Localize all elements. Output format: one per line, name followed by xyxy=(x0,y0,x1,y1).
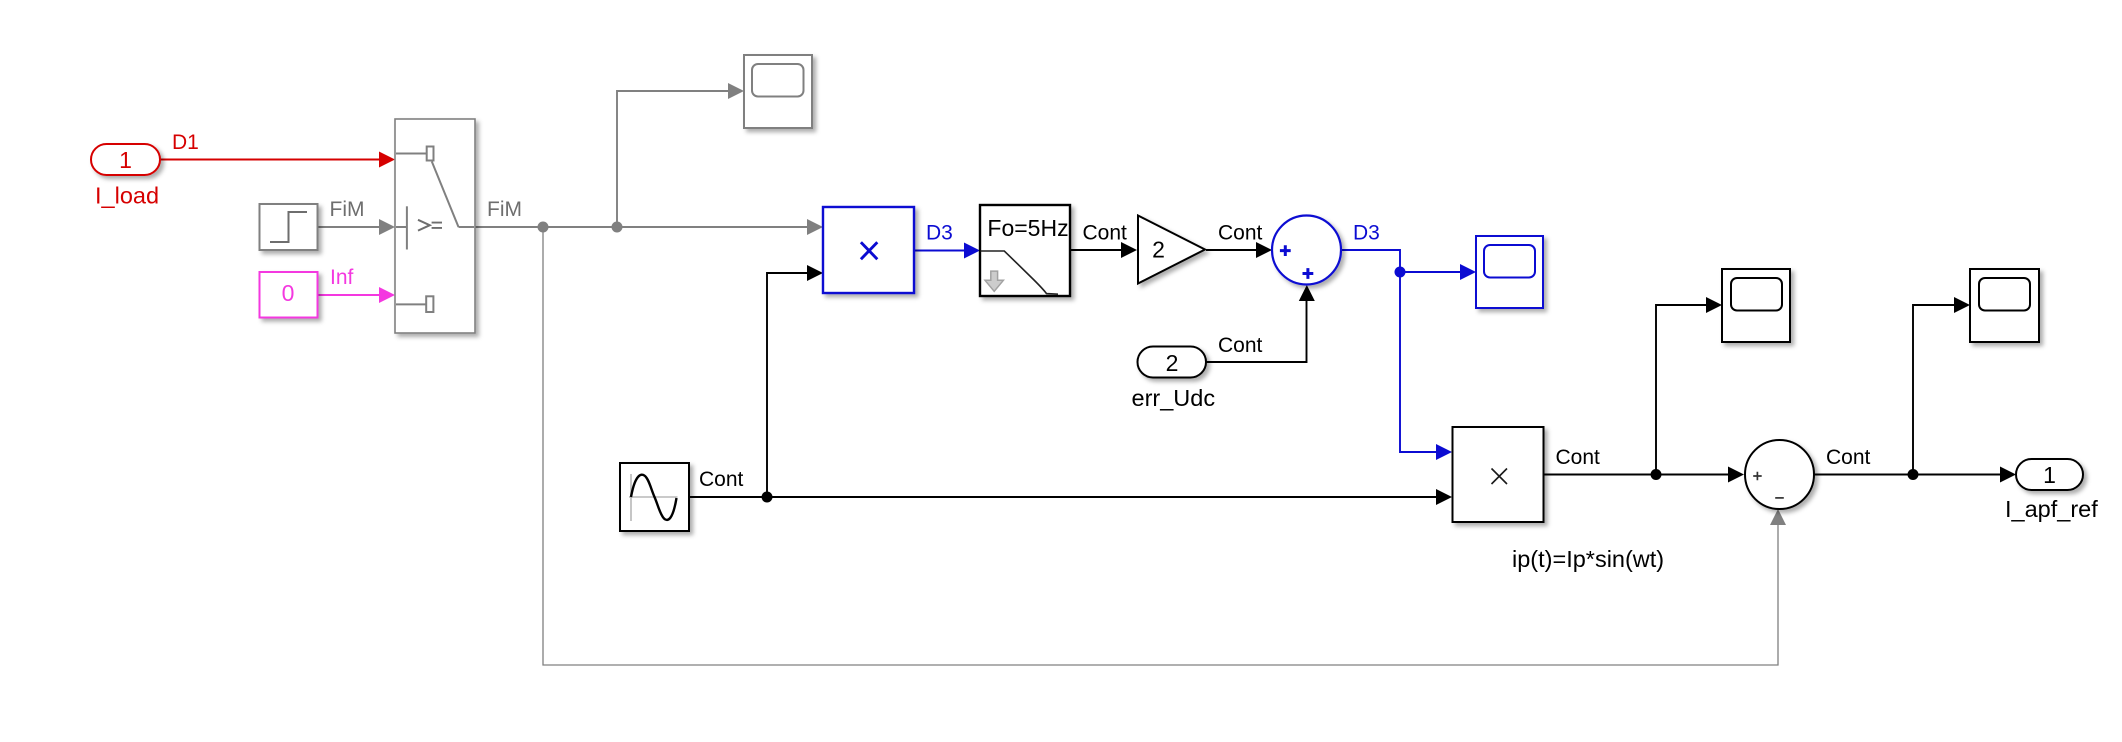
svg-text:2: 2 xyxy=(1152,237,1165,263)
svg-text:Cont: Cont xyxy=(1556,446,1601,469)
svg-text:ip(t)=Ip*sin(wt): ip(t)=Ip*sin(wt) xyxy=(1512,546,1664,572)
svg-text:I_load: I_load xyxy=(95,183,159,209)
svg-text:D3: D3 xyxy=(1353,222,1380,245)
svg-text:Cont: Cont xyxy=(699,468,744,491)
svg-text:I_apf_ref: I_apf_ref xyxy=(2005,496,2098,522)
svg-text:Cont: Cont xyxy=(1083,222,1128,245)
svg-text:Inf: Inf xyxy=(330,266,354,289)
svg-text:D1: D1 xyxy=(172,131,199,154)
svg-text:0: 0 xyxy=(282,280,295,306)
svg-text:Cont: Cont xyxy=(1218,334,1263,357)
svg-text:Cont: Cont xyxy=(1826,446,1871,469)
svg-text:Cont: Cont xyxy=(1218,222,1263,245)
svg-text:2: 2 xyxy=(1166,350,1179,376)
svg-text:err_Udc: err_Udc xyxy=(1132,385,1216,411)
svg-text:1: 1 xyxy=(2043,462,2056,488)
svg-text:FiM: FiM xyxy=(330,198,365,221)
svg-text:FiM: FiM xyxy=(487,198,522,221)
svg-text:D3: D3 xyxy=(926,222,953,245)
svg-text:Fo=5Hz: Fo=5Hz xyxy=(987,215,1068,241)
svg-text:1: 1 xyxy=(119,147,132,173)
